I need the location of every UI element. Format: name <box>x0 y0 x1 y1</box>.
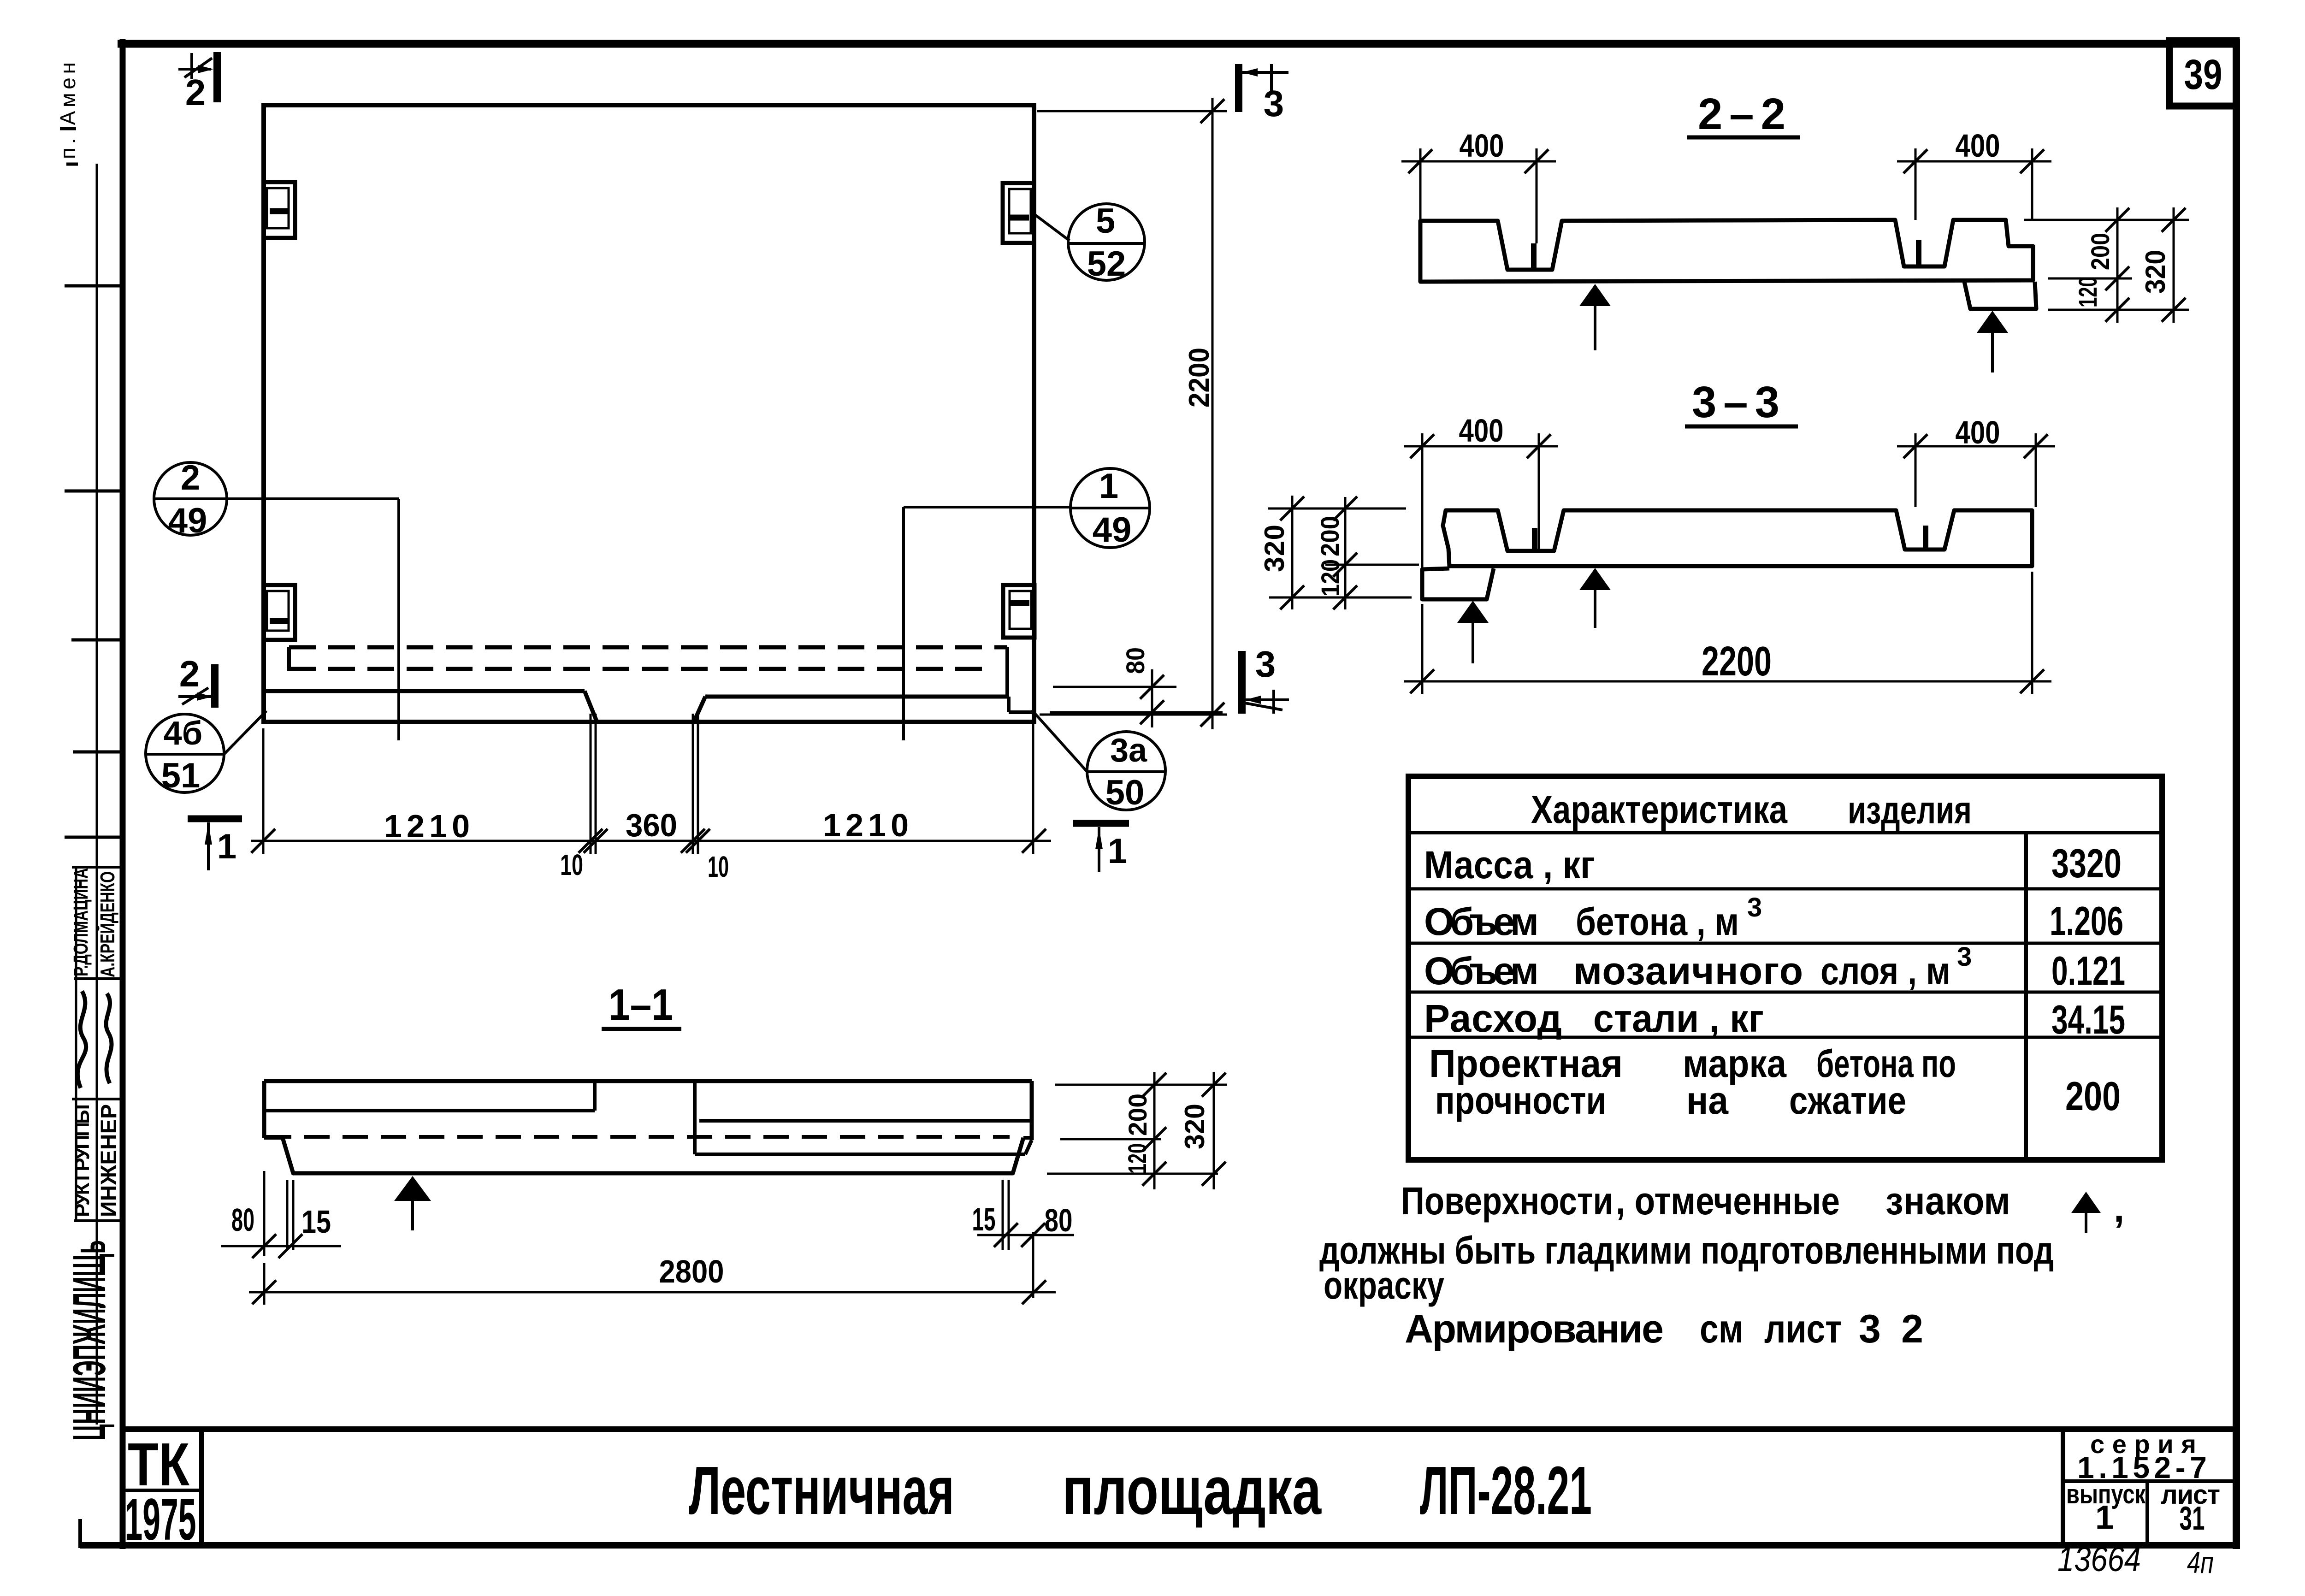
margin signature 2 <box>106 993 112 1083</box>
svg-text:Объем: Объем <box>1424 949 1539 993</box>
plan embedded plate top-right <box>1003 183 1034 243</box>
svg-text:49: 49 <box>1093 510 1132 550</box>
section 2-2 keyway pin left <box>1531 243 1537 270</box>
svg-text:80: 80 <box>1045 1202 1073 1238</box>
node circle 4b/51 with leader <box>146 711 266 795</box>
svg-text:3: 3 <box>1264 83 1284 124</box>
svg-text:34.15: 34.15 <box>2051 997 2125 1042</box>
node circle 1/49 <box>1070 467 1150 550</box>
plan embedded plate top-left <box>264 182 295 238</box>
section 3-3 support lug <box>1422 568 1494 599</box>
svg-text:слоя , м: слоя , м <box>1820 949 1950 993</box>
svg-text:мозаичного: мозаичного <box>1573 949 1803 993</box>
left margin tick marks <box>60 129 125 1221</box>
section 2-2 smooth-surface arrow mid <box>1579 284 1611 306</box>
svg-text:39: 39 <box>2184 51 2222 98</box>
svg-text:320: 320 <box>1259 525 1290 572</box>
svg-text:2–2: 2–2 <box>1698 89 1785 139</box>
title block main title <box>689 1453 1592 1529</box>
characteristics table row lines <box>1408 889 2162 1037</box>
svg-text:200: 200 <box>1123 1094 1152 1136</box>
section mark 3 top <box>1239 64 1288 124</box>
section 1-1 bottom lug <box>264 1138 1032 1173</box>
svg-text:окраску: окраску <box>1324 1264 1444 1307</box>
table header text <box>1531 788 1972 832</box>
section 3-3 dimension 400 right <box>1897 414 2055 507</box>
section 2-2 dimension lines 200/120/320 <box>2105 207 2186 323</box>
svg-text:52: 52 <box>1087 244 1126 284</box>
svg-text:Характеристика: Характеристика <box>1531 788 1788 831</box>
svg-text:2: 2 <box>185 72 206 113</box>
plan hidden edge dashed line upper <box>289 645 1007 650</box>
svg-text:1210: 1210 <box>823 807 909 843</box>
section 3-3 keyway pin right <box>1923 526 1928 550</box>
left margin column line <box>76 164 97 1425</box>
svg-text:2: 2 <box>181 458 200 497</box>
section 1-1 title <box>602 980 681 1029</box>
svg-text:Расход: Расход <box>1424 997 1562 1040</box>
section 1-1 smooth-surface arrow <box>394 1176 431 1201</box>
svg-text:10: 10 <box>560 848 583 881</box>
section 3-3 smooth-surface arrow left <box>1457 601 1489 623</box>
plan hidden edge connectors <box>289 647 1007 697</box>
svg-text:сжатие: сжатие <box>1789 1079 1906 1122</box>
svg-text:2200: 2200 <box>1183 348 1215 408</box>
section 1-1 slab top and edges <box>264 1081 1032 1140</box>
section 3-3 bottom dimension 2200 <box>1404 572 2051 694</box>
section 3-3 dimension lines 320/200/120 <box>1280 496 1357 609</box>
svg-text:1–1: 1–1 <box>609 980 673 1029</box>
node circle 5/52 with leader <box>1033 201 1145 284</box>
section 1-1 dimension 80/15 left <box>221 1171 341 1258</box>
plan embedded plate bottom-right <box>1003 585 1034 638</box>
svg-text:13664: 13664 <box>2057 1540 2141 1579</box>
svg-text:1975: 1975 <box>125 1487 196 1553</box>
svg-text:Масса , кг: Масса , кг <box>1424 843 1595 887</box>
section mark 3 bottom <box>1242 644 1289 714</box>
svg-text:Объем: Объем <box>1424 900 1539 943</box>
svg-text:360: 360 <box>626 807 677 843</box>
section 1-1 dimension lines 200/120/320 <box>1142 1072 1226 1189</box>
svg-text:3: 3 <box>1747 893 1762 922</box>
section 2-2 slab outline <box>1420 220 2033 282</box>
svg-text:знаком: знаком <box>1885 1179 2010 1223</box>
section 2-2 support lug <box>1964 282 2036 309</box>
margin signature 1 <box>77 991 86 1088</box>
svg-text:РУК ГРУППЫ: РУК ГРУППЫ <box>71 1104 94 1217</box>
svg-text:15: 15 <box>972 1201 996 1237</box>
plan dimension 80 right <box>1050 669 1223 727</box>
section mark 2 top <box>178 52 217 113</box>
svg-text:120: 120 <box>1123 1143 1152 1174</box>
section 1-1 hidden dashed line <box>266 1135 1010 1139</box>
table row 5 concrete grade <box>1429 1042 2121 1122</box>
plan embedded plate bottom-left <box>264 585 295 640</box>
section 3-3 dimension 400 left <box>1404 413 1558 568</box>
section 2-2 smooth-surface arrow right <box>1977 311 2008 333</box>
svg-text:3320: 3320 <box>2051 840 2122 886</box>
section 3-3 slab outline <box>1443 510 2032 566</box>
characteristics table header row line <box>1408 831 2162 834</box>
section 1-1 right dimension extension lines <box>1047 1085 1227 1174</box>
svg-text:120: 120 <box>2073 277 2102 307</box>
svg-text:31: 31 <box>2180 1500 2205 1537</box>
svg-text:3: 3 <box>1255 644 1276 685</box>
svg-text:0.121: 0.121 <box>2051 948 2125 993</box>
svg-text:стали , кг: стали , кг <box>1593 997 1764 1040</box>
svg-text:1.206: 1.206 <box>2050 898 2123 944</box>
svg-text:ЛП-28.21: ЛП-28.21 <box>1420 1453 1592 1529</box>
section 3-3 smooth-surface arrow mid <box>1579 568 1611 590</box>
svg-text:4б: 4б <box>164 715 203 752</box>
svg-text:49: 49 <box>168 501 207 540</box>
svg-text:А.КРЕЙДЕНКО: А.КРЕЙДЕНКО <box>95 871 119 977</box>
section 2-2 title <box>1687 89 1800 139</box>
svg-text:120: 120 <box>1316 559 1345 597</box>
svg-text:лист: лист <box>1764 1307 1842 1351</box>
section 3-3 keyway pin left <box>1532 528 1537 551</box>
svg-text:200: 200 <box>2065 1073 2121 1119</box>
svg-text:80: 80 <box>1121 647 1150 674</box>
plan right dimension line 2200 <box>1200 98 1224 729</box>
plan hidden edge dashed line lower <box>289 667 991 671</box>
svg-text:15: 15 <box>301 1204 331 1240</box>
characteristics table value column line <box>2024 833 2028 1160</box>
svg-text:5: 5 <box>1096 201 1115 241</box>
svg-text:ИНЖЕНЕР: ИНЖЕНЕР <box>97 1104 121 1217</box>
svg-text:, отмеченные: , отмеченные <box>1616 1179 1840 1223</box>
svg-text:32: 32 <box>1859 1307 1923 1351</box>
node circle 2/49 <box>154 458 227 540</box>
plan section cut line left node 2 <box>227 499 399 740</box>
svg-text:400: 400 <box>1956 128 2000 164</box>
svg-text:2800: 2800 <box>659 1253 724 1289</box>
title block series box <box>2063 1429 2236 1545</box>
note surface-finish arrow symbol <box>2071 1192 2101 1213</box>
svg-text:2200: 2200 <box>1702 638 1772 685</box>
section 1-1 dimension 2800 <box>249 1253 1056 1305</box>
svg-text:2: 2 <box>179 653 200 694</box>
section 1-1 right platform step <box>695 1081 1032 1154</box>
section 3-3 title <box>1685 378 1798 427</box>
svg-text:200: 200 <box>2086 233 2115 270</box>
svg-text:1: 1 <box>1099 467 1118 506</box>
svg-text:3: 3 <box>1957 942 1972 972</box>
section 2-2 right dimension extension lines <box>2024 220 2189 310</box>
svg-text:п. Амен: п. Амен <box>56 62 80 159</box>
svg-text:прочности: прочности <box>1435 1079 1606 1122</box>
section mark 1 bottom-left <box>188 819 242 870</box>
node circle 3a/50 with leader <box>1032 710 1165 812</box>
table row 4 steel usage <box>1424 997 2125 1042</box>
svg-text:1: 1 <box>1108 832 1127 871</box>
svg-text:3–3: 3–3 <box>1692 378 1779 427</box>
svg-text:Лестничная: Лестничная <box>689 1453 954 1529</box>
svg-text:,: , <box>2114 1187 2124 1230</box>
svg-text:3а: 3а <box>1110 732 1147 769</box>
svg-text:10: 10 <box>708 850 729 883</box>
svg-text:на: на <box>1686 1079 1729 1122</box>
svg-text:400: 400 <box>1460 128 1504 164</box>
svg-text:площадка: площадка <box>1062 1453 1322 1529</box>
svg-text:1: 1 <box>217 827 236 866</box>
svg-text:см: см <box>1700 1307 1744 1351</box>
plan section cut line right node 1 <box>904 507 1070 740</box>
section 1-1 mosaic layer line left <box>264 1081 595 1111</box>
svg-text:Р.ДОЛМАЦИНА: Р.ДОЛМАЦИНА <box>70 868 92 976</box>
svg-text:бетона , м: бетона , м <box>1576 900 1739 943</box>
svg-text:400: 400 <box>1956 414 2000 450</box>
section 2-2 keyway pin right <box>1916 240 1921 266</box>
svg-text:1210: 1210 <box>384 808 470 844</box>
section mark 2 bottom <box>178 653 215 708</box>
svg-text:Поверхности: Поверхности <box>1401 1179 1613 1223</box>
table row 2 concrete volume <box>1424 893 2123 944</box>
svg-text:400: 400 <box>1459 413 1504 449</box>
svg-text:изделия: изделия <box>1848 788 1972 832</box>
plan bottom dimension line 1210+360+1210 <box>251 829 1051 853</box>
svg-text:80: 80 <box>231 1202 254 1238</box>
svg-text:51: 51 <box>161 756 201 795</box>
plan view outline <box>264 105 1034 722</box>
plan lower step edge right <box>694 697 1034 722</box>
section 1-1 dimension 15/80 right <box>972 1180 1075 1298</box>
svg-text:1: 1 <box>2095 1499 2114 1536</box>
title block TK box <box>123 1429 201 1553</box>
note line 4 reinforcement <box>1405 1307 1923 1351</box>
note line 1 surfaces marked with sign <box>1401 1179 2010 1223</box>
svg-text:320: 320 <box>1179 1104 1210 1149</box>
svg-text:ЦНИИЭПЖИЛИЩь: ЦНИИЭПЖИЛИЩь <box>64 1240 115 1441</box>
title block top line <box>123 1426 2236 1432</box>
section 3-3 left dimension extension lines <box>1268 508 1419 597</box>
svg-text:Армирование: Армирование <box>1405 1307 1664 1351</box>
section 2-2 dimension 400 left <box>1401 128 1556 243</box>
svg-text:200: 200 <box>1315 516 1344 556</box>
table row 3 mosaic layer volume <box>1424 942 2125 993</box>
svg-text:4п: 4п <box>2187 1545 2214 1579</box>
sheet number box 39 <box>2169 41 2236 106</box>
table row 1 mass <box>1424 840 2122 887</box>
section mark 1 bottom-right <box>1073 823 1129 872</box>
svg-text:50: 50 <box>1105 773 1145 812</box>
plan bottom dimension extension lines <box>263 714 1033 854</box>
plan lower step edge left <box>264 691 597 722</box>
section 2-2 dimension 400 right <box>1897 128 2051 220</box>
svg-text:320: 320 <box>2140 250 2171 294</box>
plan right dimension 2200 extension lines <box>1037 111 1227 715</box>
characteristics table frame <box>1408 776 2162 1160</box>
